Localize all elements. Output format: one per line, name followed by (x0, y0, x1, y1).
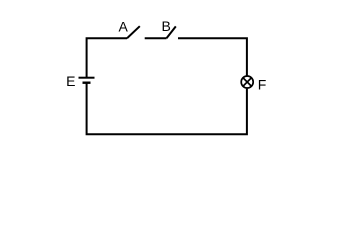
lamp F: X diagonal 2 (243, 78, 252, 87)
svg-text:F: F (258, 77, 267, 93)
lamp F: X diagonal 1 (243, 78, 252, 87)
wire: switch B to top-right corner, down to lamp (178, 38, 247, 75)
svg-text:A: A (119, 19, 129, 35)
svg-text:B: B (162, 18, 171, 34)
battery E: long (positive) plate (79, 77, 95, 79)
svg-text:E: E (66, 73, 75, 89)
wire: top-left segment (switch A hinge to top-left corner, down to battery) (87, 38, 127, 77)
switch B blade (open) (167, 26, 176, 38)
wire: between switch A and switch B (145, 37, 167, 39)
battery E: short (negative) plate (83, 81, 91, 83)
switch A blade (open) (127, 26, 140, 38)
wire: battery to bottom-left corner, bottom side, bottom-right corner, up to lamp (87, 83, 247, 134)
lamp F: circle (241, 76, 253, 88)
